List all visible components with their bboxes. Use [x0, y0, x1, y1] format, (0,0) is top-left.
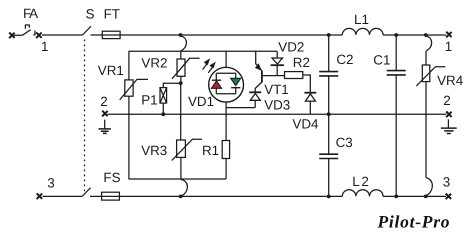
svg-text:VD2: VD2	[278, 39, 304, 54]
wire VR2 node down to VR3	[180, 83, 182, 140]
junction dot line1 / VR2 rail	[179, 33, 183, 37]
terminal 3 left x-mark	[37, 193, 43, 199]
junction dot VR4 rail / line3	[424, 195, 428, 199]
wire left rail upper segment to VR1	[128, 51, 130, 80]
LED emission arrows	[203, 58, 216, 73]
green LED chip of VD1	[231, 78, 241, 87]
svg-text:2: 2	[100, 94, 107, 109]
transistor VT1	[255, 51, 285, 92]
ground at terminal 2 right	[441, 119, 457, 133]
svg-text:FT: FT	[104, 7, 120, 22]
wire VD1 cathode rail down to R1	[225, 102, 227, 140]
capacitor C3	[319, 114, 338, 196]
svg-text:S: S	[86, 7, 95, 22]
terminal 3 right x-mark	[446, 194, 452, 200]
wire bottom rail of module	[129, 178, 227, 180]
svg-text:3: 3	[443, 174, 450, 189]
svg-text:R1: R1	[202, 143, 219, 158]
svg-text:VT1: VT1	[264, 82, 289, 97]
svg-text:VR3: VR3	[141, 143, 167, 158]
wire line 1 (top) FA to switch S	[42, 34, 83, 36]
junction dot C3 / line3	[327, 195, 331, 199]
diode VD4	[304, 93, 316, 115]
svg-text:VR2: VR2	[141, 56, 167, 71]
junction dot P1 / line2	[161, 112, 165, 116]
varistor VR2	[172, 58, 200, 79]
wire line 3 L2 to terminal	[383, 195, 446, 197]
svg-text:1: 1	[445, 39, 452, 54]
svg-text:L2: L2	[352, 174, 369, 189]
wire hop arc below junction (VR2 rail)	[181, 36, 187, 51]
switch S pole 1 blade	[83, 26, 92, 35]
terminal 1 right x-mark	[446, 32, 452, 38]
terminal 2 right x-mark	[446, 112, 452, 118]
circuit breaker FA	[9, 25, 42, 38]
svg-text:C2: C2	[336, 52, 353, 67]
svg-text:FA: FA	[23, 6, 38, 21]
svg-text:FS: FS	[103, 170, 120, 185]
junction dot line1 / VR4	[424, 33, 428, 37]
junction dot C1 / line3	[394, 195, 398, 199]
svg-text:C1: C1	[373, 53, 390, 68]
inductor L1	[342, 28, 383, 35]
svg-text:L1: L1	[354, 12, 369, 27]
wire line 1 (top) switch to L1	[91, 34, 343, 36]
svg-text:VD3: VD3	[264, 97, 290, 112]
wire VR2 to junction	[180, 76, 182, 83]
wire hop arc VR4 rail to line 3	[426, 178, 432, 196]
varistor VR3	[172, 139, 202, 160]
junction dot line1 / C2	[327, 33, 331, 37]
junction dot line1 / C1	[394, 33, 398, 37]
wire hop arc below junction (VR4 rail)	[426, 36, 432, 51]
wire line 3 switch to L2	[90, 195, 342, 197]
switch S pole 2 blade	[82, 188, 91, 197]
svg-text:3: 3	[47, 175, 54, 190]
svg-text:Pilot-Pro: Pilot-Pro	[377, 212, 450, 232]
capacitor C2	[319, 35, 338, 114]
svg-text:VR4: VR4	[437, 73, 464, 88]
svg-text:VD4: VD4	[292, 117, 319, 132]
LED VD1 bicolor indicator	[209, 51, 244, 102]
svg-text:1: 1	[41, 39, 48, 54]
varistor VR4	[416, 51, 445, 178]
diode VD2	[271, 51, 284, 75]
arrester P1	[160, 88, 167, 104]
wire hop arc VR3 rail to line 3	[181, 180, 188, 196]
wire P1 to line 2	[162, 103, 164, 114]
wire left rail lower segment VR1 to bottom rail	[128, 96, 130, 179]
resistor R2	[285, 72, 303, 79]
svg-text:P1: P1	[141, 93, 157, 108]
wire line 3 terminal to switch	[43, 195, 83, 197]
resistor R1	[222, 141, 229, 159]
capacitor C1	[387, 35, 406, 196]
wire R2 to VD4	[303, 75, 311, 93]
wire line 2 (middle)	[108, 113, 447, 115]
fuse FT	[102, 31, 120, 38]
switch S linkage dashed line	[84, 40, 86, 193]
wire line 1 (top) L1 to terminal 1	[383, 34, 446, 36]
varistor VR1	[120, 79, 148, 99]
svg-text:C3: C3	[336, 135, 353, 150]
wire junction to P1	[163, 83, 180, 87]
wire VR3 to bottom rail	[180, 157, 182, 179]
diode VD3	[249, 92, 261, 107]
wire VR2 rail arc to VR2	[180, 51, 182, 59]
terminal 2 left x-mark	[102, 111, 108, 117]
red LED chip of VD1	[212, 80, 222, 88]
svg-text:VR1: VR1	[98, 63, 124, 78]
fuse FS	[102, 192, 120, 200]
wire top rail of module	[129, 50, 278, 52]
svg-text:R2: R2	[293, 55, 310, 70]
junction dot VR3 rail / line3	[179, 195, 183, 199]
ground at terminal 2 left	[99, 120, 111, 134]
junction dot C2 / line2	[327, 112, 331, 116]
junction dot VR2/P1/VR3 node	[179, 81, 183, 85]
svg-text:VD1: VD1	[188, 94, 214, 109]
wire VD3 anode to VD1 rail	[226, 107, 255, 109]
inductor L2	[342, 190, 383, 197]
svg-text:2: 2	[443, 93, 450, 108]
wire R1 to bottom rail	[225, 159, 227, 180]
